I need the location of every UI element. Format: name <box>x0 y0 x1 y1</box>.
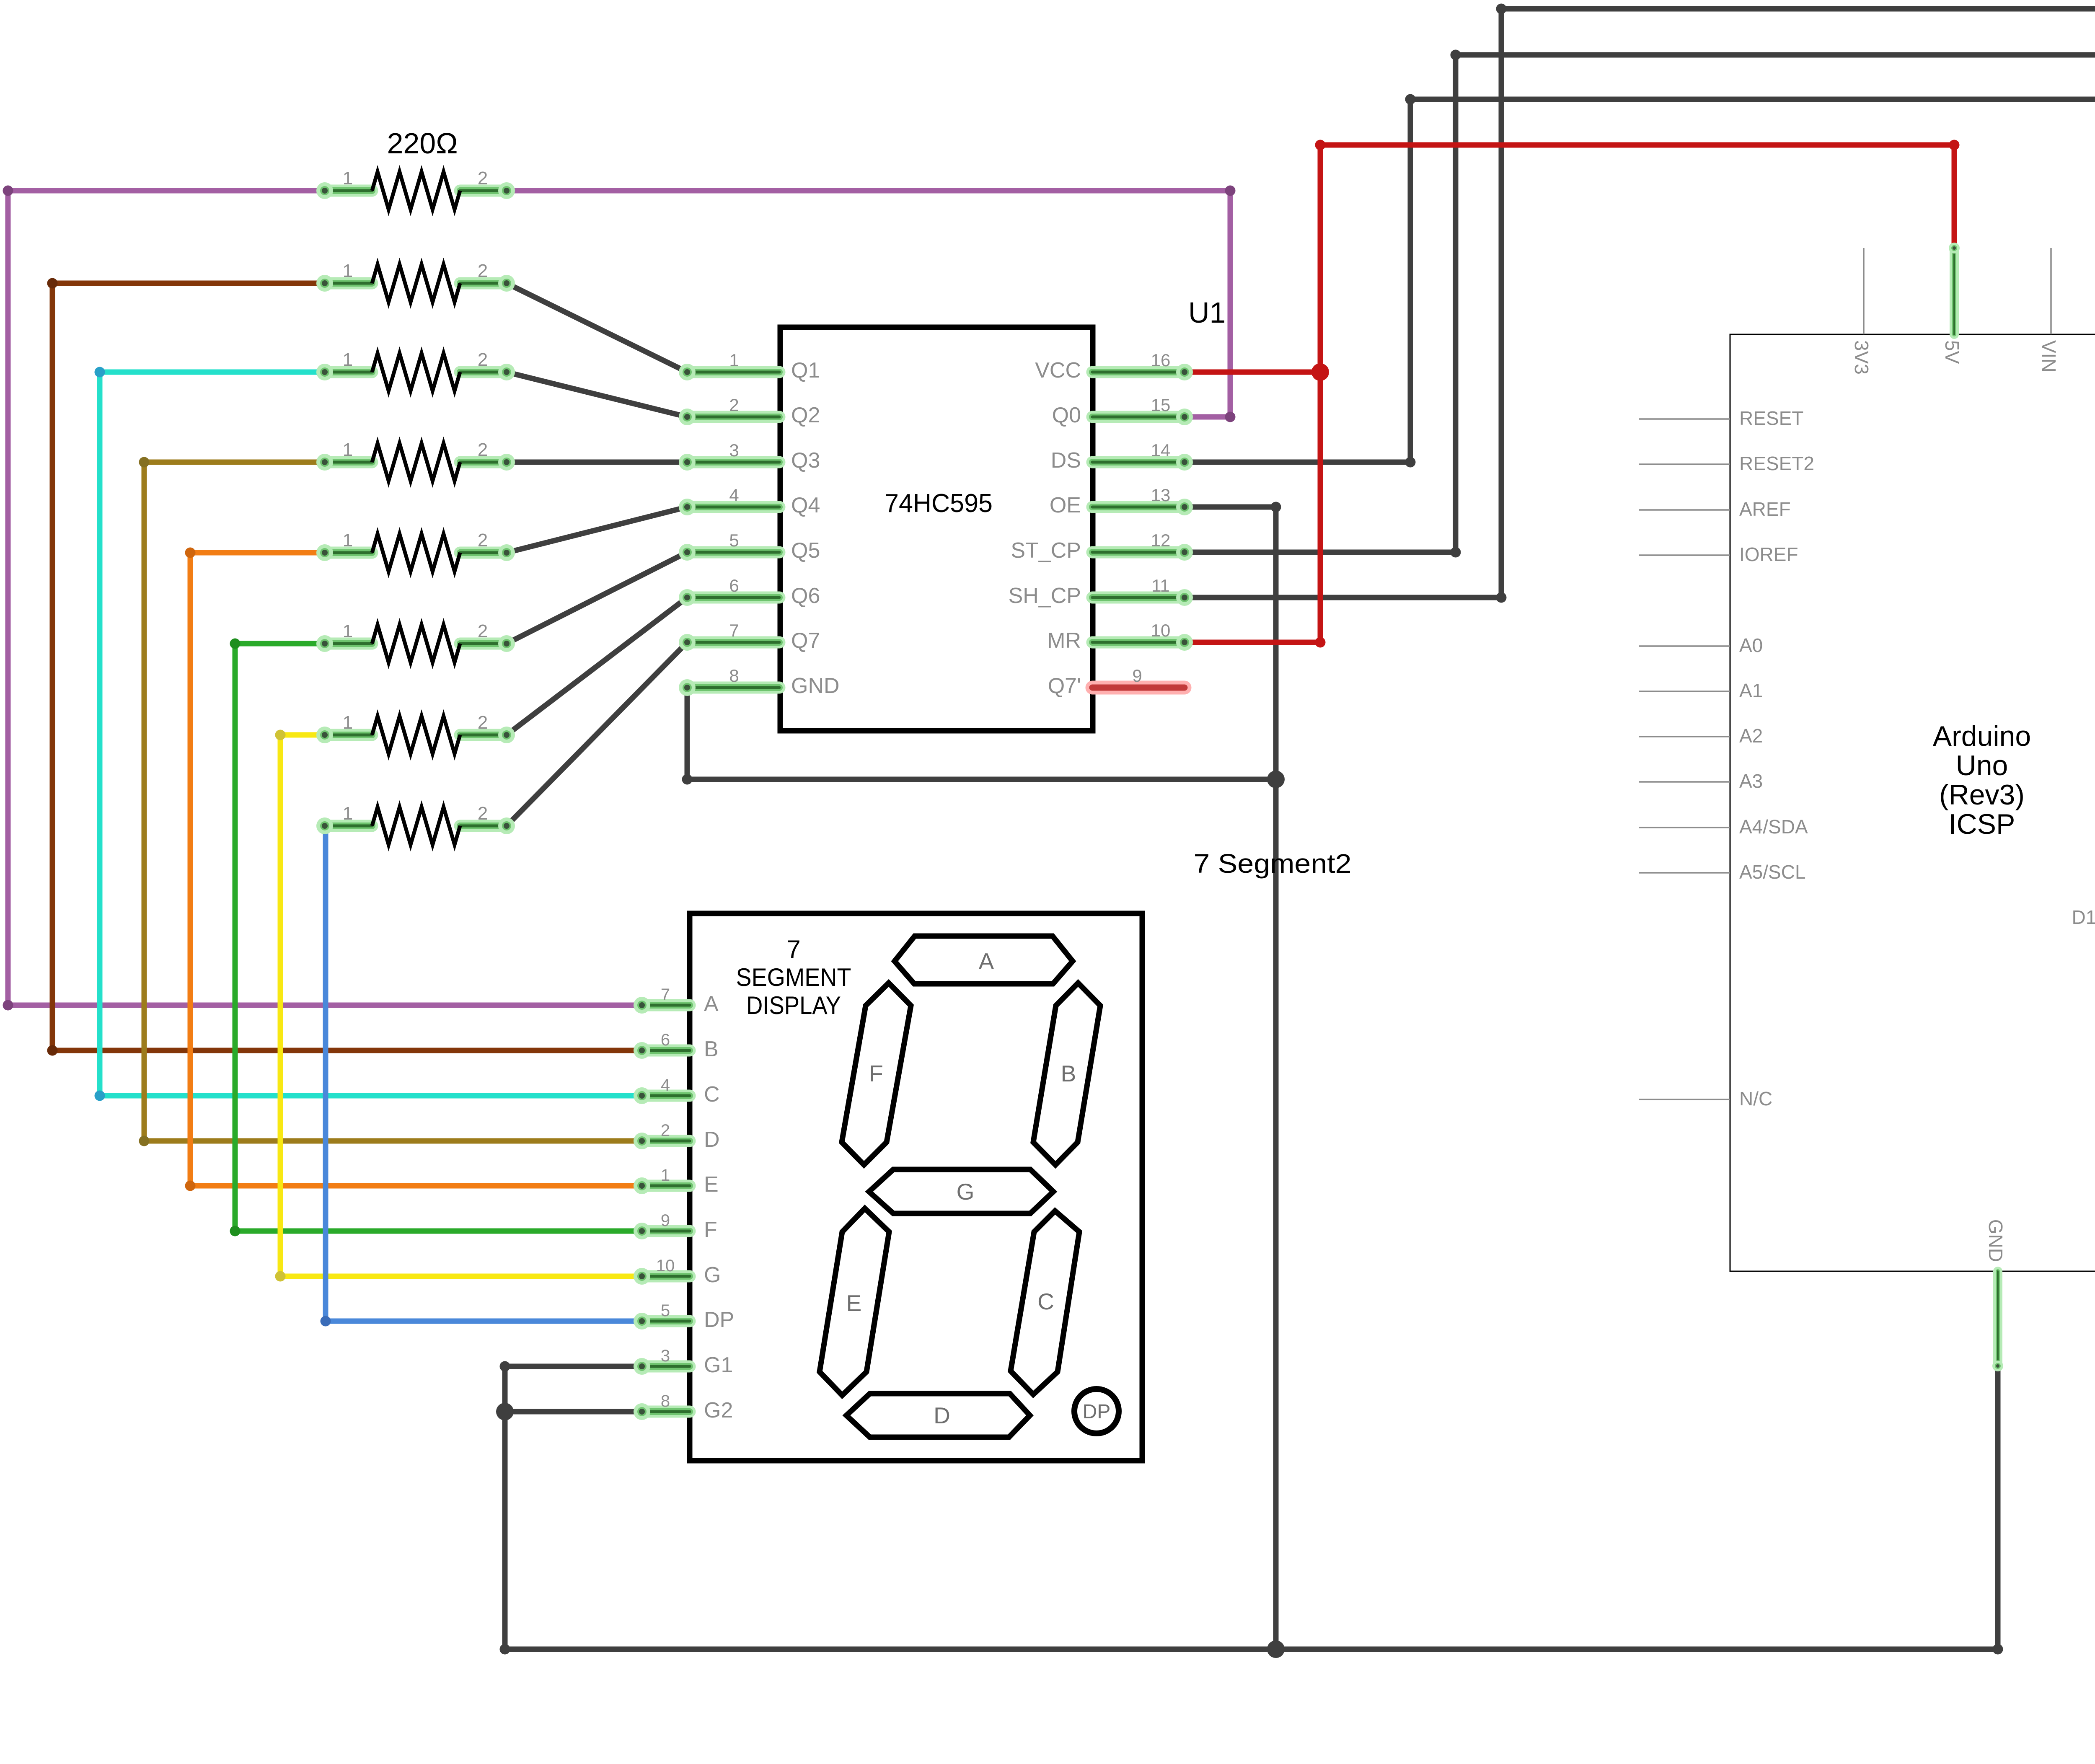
7-seg pin 8 G2 <box>642 1392 733 1423</box>
svg-text:9: 9 <box>661 1211 670 1230</box>
wire dark: U1 OE down to ground bus <box>1185 502 1281 1650</box>
svg-text:8: 8 <box>661 1392 670 1410</box>
svg-text:Q6: Q6 <box>791 584 820 608</box>
svg-text:F: F <box>704 1218 717 1242</box>
7-seg pin 4 C <box>642 1076 720 1107</box>
svg-text:RESET2: RESET2 <box>1739 453 1814 474</box>
svg-text:7: 7 <box>786 935 800 963</box>
junction: red VCC node <box>1311 363 1329 381</box>
Arduino pin A5/SCL <box>1639 861 1806 883</box>
svg-text:2: 2 <box>478 621 488 641</box>
7-seg pin 5 DP <box>642 1301 734 1332</box>
wire yellow: resistor pin1 to 7-seg segment G <box>275 730 642 1282</box>
resistor R4 <box>325 440 507 481</box>
resistor R3 <box>325 349 507 391</box>
7-segment display body <box>690 913 1142 1461</box>
U1 pin 14 DS <box>1051 440 1185 473</box>
wire cyan: resistor pin1 to 7-seg segment C <box>95 367 642 1101</box>
svg-text:E: E <box>704 1172 719 1197</box>
svg-text:Uno: Uno <box>1956 750 2008 781</box>
svg-text:5: 5 <box>729 530 739 550</box>
svg-text:7: 7 <box>729 621 739 640</box>
svg-text:Q5: Q5 <box>791 538 820 563</box>
svg-text:Q7: Q7 <box>791 629 820 653</box>
svg-text:7 Segment2: 7 Segment2 <box>1194 848 1352 879</box>
U1 pin 1 Q1 <box>687 350 820 383</box>
svg-text:1: 1 <box>343 168 353 189</box>
svg-text:N/C: N/C <box>1739 1088 1772 1110</box>
Arduino pin A2 <box>1639 725 1763 747</box>
svg-text:3: 3 <box>661 1347 670 1365</box>
svg-text:220Ω: 220Ω <box>387 127 458 160</box>
svg-text:U1: U1 <box>1188 296 1226 329</box>
svg-text:8: 8 <box>729 666 739 685</box>
resistor R5 <box>325 530 507 572</box>
resistor R8 <box>325 803 507 845</box>
Arduino pin RESET2 <box>1639 453 1814 474</box>
svg-text:A4/SDA: A4/SDA <box>1739 816 1808 838</box>
Arduino pin D10 PWM/SS <box>2094 861 2095 883</box>
7-seg pin 9 F <box>642 1211 717 1242</box>
Arduino label <box>1933 720 2031 840</box>
svg-text:GND: GND <box>1985 1219 2007 1262</box>
svg-text:9: 9 <box>1132 666 1142 685</box>
svg-text:2: 2 <box>478 168 488 189</box>
svg-text:A1: A1 <box>1739 680 1763 701</box>
svg-text:3V3: 3V3 <box>1851 340 1873 375</box>
wire dark: U1 SH_CP to Arduino D4 <box>1185 4 2095 606</box>
svg-text:OE: OE <box>1050 493 1081 517</box>
svg-text:6: 6 <box>661 1031 670 1049</box>
svg-text:VCC: VCC <box>1035 358 1081 383</box>
U1 pin 12 ST_CP <box>1011 530 1185 563</box>
svg-text:6: 6 <box>729 576 739 595</box>
Arduino pin A0 <box>1639 634 1763 656</box>
7-seg pin 10 G <box>642 1257 721 1287</box>
svg-text:5V: 5V <box>1941 340 1963 364</box>
svg-text:G1: G1 <box>704 1353 733 1377</box>
svg-text:2: 2 <box>478 440 488 460</box>
svg-text:G: G <box>957 1179 975 1205</box>
junction: GND meets OE vertical <box>1267 771 1285 788</box>
svg-text:1: 1 <box>343 261 353 281</box>
Arduino pin A4/SDA <box>1639 816 1808 838</box>
svg-text:C: C <box>704 1082 720 1107</box>
svg-text:1: 1 <box>343 530 353 551</box>
wire purple: resistor pin1 to 7-seg segment A <box>3 186 642 1011</box>
svg-text:2: 2 <box>729 395 739 415</box>
svg-text:A5/SCL: A5/SCL <box>1739 861 1806 883</box>
display segment G <box>869 1169 1053 1213</box>
svg-text:F: F <box>869 1060 883 1086</box>
7-seg pin 1 E <box>642 1166 719 1197</box>
svg-text:A2: A2 <box>1739 725 1763 747</box>
U1 pin 4 Q4 <box>687 485 820 517</box>
wire green: resistor pin1 to 7-seg segment F <box>230 639 642 1236</box>
wire dark: U1 GND to OE vertical <box>682 688 1276 785</box>
svg-text:1: 1 <box>343 712 353 733</box>
wire dark: ground bus <box>500 1361 2003 1655</box>
svg-text:G: G <box>704 1263 721 1287</box>
wire resistor R7 pin2 to 74HC595 Q6 <box>507 597 687 735</box>
U1 pin 9 Q7' <box>1048 666 1185 698</box>
Arduino pin IOREF <box>1639 543 1798 565</box>
svg-text:Q0: Q0 <box>1052 403 1081 427</box>
svg-text:1: 1 <box>661 1166 670 1185</box>
svg-text:A: A <box>979 948 994 974</box>
svg-text:10: 10 <box>1151 621 1171 640</box>
display segment C <box>1011 1211 1079 1394</box>
svg-text:13: 13 <box>1151 485 1171 505</box>
wire resistor R8 pin2 to 74HC595 Q7 <box>507 642 687 826</box>
display segment F <box>842 983 911 1165</box>
svg-text:IOREF: IOREF <box>1739 543 1798 565</box>
svg-text:16: 16 <box>1151 350 1171 370</box>
wire blue: resistor pin1 to 7-seg segment DP <box>321 821 642 1327</box>
svg-text:ST_CP: ST_CP <box>1011 538 1081 563</box>
svg-text:3: 3 <box>729 440 739 460</box>
Arduino pin 3V3 <box>1851 248 1873 375</box>
Arduino pin D11 PWM/MOSI <box>2072 906 2095 928</box>
svg-text:7: 7 <box>661 985 670 1004</box>
svg-text:Arduino: Arduino <box>1933 720 2031 752</box>
resistor R7 <box>325 712 507 754</box>
svg-text:1: 1 <box>343 440 353 460</box>
svg-text:MR: MR <box>1047 629 1081 653</box>
wire red: U1 MR / VCC to Arduino 5V <box>1185 140 1960 648</box>
Arduino pin 5V <box>1941 248 1963 364</box>
svg-text:Q1: Q1 <box>791 358 820 383</box>
U1 pin 6 Q6 <box>687 576 820 608</box>
wire purple: U1 Q0 to resistor R1 pin2 <box>507 186 1236 422</box>
svg-text:DP: DP <box>1083 1401 1111 1423</box>
svg-text:14: 14 <box>1151 440 1171 460</box>
svg-text:VIN: VIN <box>2038 340 2060 372</box>
svg-text:12: 12 <box>1151 530 1171 550</box>
Arduino pin N/C <box>1639 1088 1772 1110</box>
svg-text:11: 11 <box>1151 576 1170 595</box>
svg-text:74HC595: 74HC595 <box>885 489 993 518</box>
svg-text:2: 2 <box>478 349 488 370</box>
Arduino pin AREF <box>1639 498 1791 520</box>
svg-text:DISPLAY: DISPLAY <box>746 991 841 1019</box>
svg-text:(Rev3): (Rev3) <box>1939 779 2025 811</box>
svg-text:10: 10 <box>656 1257 675 1275</box>
svg-text:2: 2 <box>478 712 488 733</box>
svg-text:2: 2 <box>661 1121 670 1140</box>
U1 pin 7 Q7 <box>687 621 820 653</box>
svg-text:Q2: Q2 <box>791 403 820 427</box>
U1 pin 11 SH_CP <box>1009 576 1185 608</box>
svg-text:A3: A3 <box>1739 770 1763 792</box>
svg-text:1: 1 <box>343 349 353 370</box>
junction: OE vertical meets ground bus <box>1267 1640 1285 1658</box>
7-seg pin 3 G1 <box>642 1347 733 1377</box>
7-seg pin 2 D <box>642 1121 720 1152</box>
wire orange: resistor pin1 to 7-seg segment E <box>185 548 642 1191</box>
U1 pin 13 OE <box>1050 485 1185 517</box>
7-seg pin 7 A <box>642 985 719 1016</box>
Arduino Uno body <box>1730 334 2095 1271</box>
svg-text:15: 15 <box>1151 395 1171 415</box>
svg-text:RESET: RESET <box>1739 407 1803 429</box>
Arduino pin A1 <box>1639 680 1763 701</box>
display segment D <box>846 1394 1030 1437</box>
svg-text:DS: DS <box>1051 448 1081 473</box>
svg-text:B: B <box>704 1037 719 1061</box>
svg-text:D: D <box>934 1402 950 1428</box>
svg-text:Q7': Q7' <box>1048 674 1081 698</box>
Arduino pin RESET <box>1639 407 1803 429</box>
svg-text:D: D <box>704 1128 720 1152</box>
svg-text:D11 PWM/MOSI: D11 PWM/MOSI <box>2072 906 2095 928</box>
resistor R2 <box>325 261 507 302</box>
svg-text:1: 1 <box>343 803 353 824</box>
display segment B <box>1033 983 1100 1165</box>
Arduino pin GND <box>1985 1219 2007 1366</box>
svg-text:B: B <box>1061 1060 1076 1086</box>
svg-text:A: A <box>704 992 719 1016</box>
svg-text:Q3: Q3 <box>791 448 820 473</box>
Arduino pin A3 <box>1639 770 1763 792</box>
svg-text:2: 2 <box>478 803 488 824</box>
U1 pin 15 Q0 <box>1052 395 1185 427</box>
display segment DP <box>1074 1389 1119 1433</box>
svg-text:A0: A0 <box>1739 634 1763 656</box>
svg-text:1: 1 <box>729 350 739 370</box>
svg-text:4: 4 <box>661 1076 670 1094</box>
U1 pin 5 Q5 <box>687 530 820 563</box>
U1 pin 10 MR <box>1047 621 1185 653</box>
junction: G2 meets ground bus vertical <box>496 1403 514 1420</box>
svg-text:Q4: Q4 <box>791 493 820 517</box>
svg-text:5: 5 <box>661 1301 670 1320</box>
resistor R6 <box>325 621 507 662</box>
IC U1 74HC595 body <box>780 327 1093 731</box>
display segment A <box>895 936 1073 984</box>
U1 pin 3 Q3 <box>687 440 820 473</box>
wire dark: U1 ST_CP to Arduino D3 <box>1185 50 2095 561</box>
svg-text:C: C <box>1037 1288 1054 1314</box>
wire resistor R4 pin2 to 74HC595 Q3 <box>507 460 687 465</box>
wire resistor R5 pin2 to 74HC595 Q4 <box>507 507 687 553</box>
wire resistor R6 pin2 to 74HC595 Q5 <box>507 552 687 644</box>
wire olive: resistor pin1 to 7-seg segment D <box>139 457 642 1146</box>
resistor R1 <box>325 168 507 210</box>
U1 pin 8 GND <box>687 666 840 698</box>
7-seg pin 6 B <box>642 1031 719 1061</box>
wire brown: resistor pin1 to 7-seg segment B <box>47 278 642 1056</box>
svg-text:1: 1 <box>343 621 353 641</box>
svg-text:E: E <box>846 1290 862 1316</box>
Arduino pin VIN <box>2038 248 2060 372</box>
display segment E <box>820 1208 889 1395</box>
wire resistor R3 pin2 to 74HC595 Q2 <box>507 372 687 417</box>
wire dark: U1 DS to Arduino D2 <box>1185 94 2095 515</box>
svg-text:ICSP: ICSP <box>1949 808 2015 840</box>
svg-text:G2: G2 <box>704 1398 733 1423</box>
svg-text:SH_CP: SH_CP <box>1009 584 1081 608</box>
svg-text:AREF: AREF <box>1739 498 1791 520</box>
U1 pin 16 VCC <box>1035 350 1185 383</box>
U1 pin 2 Q2 <box>687 395 820 427</box>
svg-text:SEGMENT: SEGMENT <box>736 963 851 991</box>
svg-text:2: 2 <box>478 261 488 281</box>
wire resistor R2 pin2 to 74HC595 Q1 <box>507 283 687 372</box>
pin terminals <box>316 182 2095 1420</box>
svg-text:GND: GND <box>791 674 840 698</box>
svg-text:4: 4 <box>729 485 739 505</box>
svg-text:DP: DP <box>704 1308 734 1332</box>
svg-text:2: 2 <box>478 530 488 551</box>
